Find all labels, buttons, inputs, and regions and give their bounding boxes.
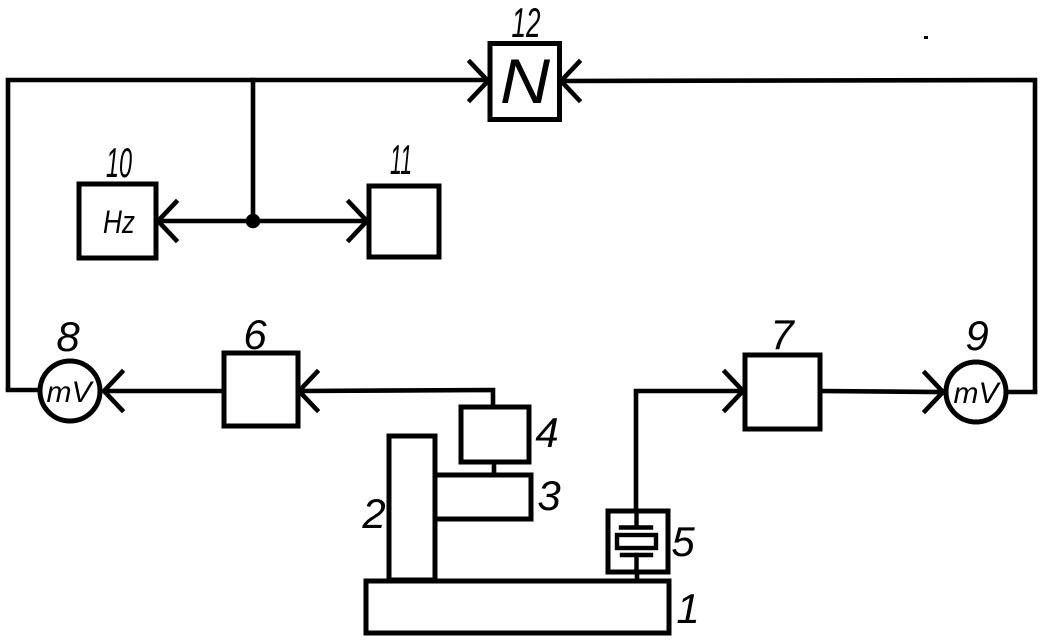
svg-text:1: 1 — [676, 585, 699, 632]
svg-text:5: 5 — [671, 518, 695, 565]
svg-text:7: 7 — [770, 311, 795, 358]
svg-text:10: 10 — [106, 139, 132, 186]
svg-text:9: 9 — [965, 312, 988, 359]
block 10 frequency meter box — [79, 184, 156, 258]
block 6 box — [224, 353, 298, 426]
svg-text:4: 4 — [535, 409, 558, 456]
svg-text:6: 6 — [243, 311, 267, 358]
wire: right riser stub from voltmeter 9 — [1006, 390, 1035, 395]
transducer 5 box — [608, 511, 668, 572]
arrowhead into block 7 — [725, 372, 743, 410]
wire: short link between block 4 and block 3 — [492, 462, 497, 475]
svg-text:2: 2 — [361, 490, 385, 537]
arrowhead into block 6 — [299, 372, 317, 410]
block 7 box — [745, 355, 820, 429]
svg-text:N: N — [500, 47, 551, 117]
svg-text:11: 11 — [390, 136, 412, 183]
arrowhead into block 11 — [349, 202, 367, 240]
wire: from block 6 to voltmeter 8 — [106, 389, 223, 394]
arrowhead into block 12 left side — [470, 62, 488, 100]
wire: drop from top line down to junction between blocks 10 and 11 — [251, 80, 256, 221]
stray ink speck — [924, 36, 928, 39]
junction dot — [246, 214, 261, 229]
block 2 column — [389, 436, 435, 580]
block 3 arm — [435, 475, 531, 519]
wire: top feedback line, right segment from block 12 to right riser — [565, 80, 1035, 391]
svg-text:mV: mV — [954, 377, 1002, 410]
wire: top feedback line, left segment from left riser to block 12 — [8, 80, 483, 388]
svg-text:mV: mV — [47, 376, 95, 409]
voltmeter 8 circle — [40, 361, 100, 421]
block 4 box — [461, 407, 529, 462]
block 12 frequency converter box — [490, 44, 560, 120]
block 11 box — [369, 186, 439, 257]
wire: from transducer 5 up and right into block 7 — [636, 391, 740, 510]
arrowhead into block 10 — [158, 202, 176, 240]
arrowhead into voltmeter 8 — [104, 372, 122, 410]
wire: left riser stub into voltmeter 8 — [8, 388, 40, 393]
block 1 base plate — [366, 581, 669, 633]
voltmeter 9 circle — [946, 362, 1006, 422]
svg-text:Hz: Hz — [103, 204, 135, 240]
svg-text:3: 3 — [537, 472, 560, 519]
svg-text:8: 8 — [56, 313, 80, 360]
arrowhead into block 12 right side — [561, 62, 579, 100]
svg-text:12: 12 — [512, 0, 541, 46]
wire: from block 7 to voltmeter 9 — [820, 391, 940, 392]
wire: stub from transducer 5 down to base plate 1 — [635, 572, 640, 580]
transducer 5 crystal symbol — [617, 513, 656, 569]
wire: from block 4 up and left into block 6 — [301, 390, 493, 407]
wire: horizontal line between block 10 and block 11 — [160, 219, 365, 224]
arrowhead into voltmeter 9 — [925, 373, 943, 411]
